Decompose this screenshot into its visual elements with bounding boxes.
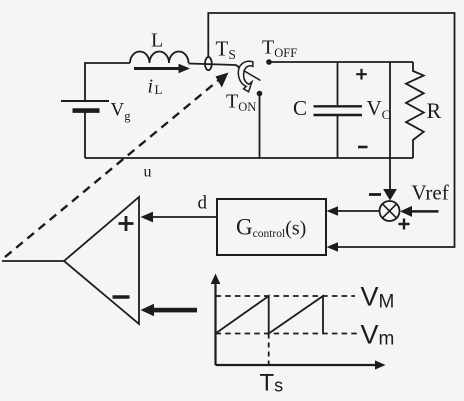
arrowhead Vref into junction (400, 206, 412, 217)
wire inductor to Ts node (189, 64, 237, 66)
junction minus sign (369, 193, 381, 196)
waveform y axis arrowhead (211, 274, 221, 285)
comparator plus input sign (119, 216, 134, 231)
wire Ton branch down (259, 96, 261, 158)
wire Toff rail (269, 61, 413, 63)
waveform y axis (214, 280, 216, 365)
wire summing junction to block (336, 210, 379, 212)
arrowhead Vc into junction (383, 189, 397, 201)
wire left branch lower (84, 112, 86, 158)
svg-text:R: R (427, 98, 442, 123)
wire outer top loop from switch node around right side into controller (208, 13, 454, 247)
junction plus sign (399, 219, 410, 230)
svg-text:VM: VM (361, 282, 395, 313)
resistor R (406, 62, 424, 158)
comparator output wire (2, 260, 64, 262)
waveform x axis (216, 364, 379, 366)
arrowhead into comparator + input (141, 212, 154, 223)
cap plus polarity (356, 69, 367, 80)
bottom rail (85, 157, 413, 159)
svg-text:C: C (293, 96, 307, 120)
capacitor C branch lower (337, 116, 339, 158)
inductor L (130, 52, 189, 64)
Ton contact dot (257, 91, 263, 97)
sawtooth ramps (216, 296, 324, 334)
Toff contact dot (266, 59, 272, 65)
svg-text:VC: VC (367, 96, 391, 122)
arrowhead into block right bottom (327, 242, 339, 252)
waveform Ts dashed vertical (268, 334, 270, 365)
Gcontrol block (217, 199, 326, 255)
svg-text:Ts: Ts (260, 370, 284, 397)
capacitor C plates (314, 105, 363, 107)
switch blade line (244, 71, 261, 81)
svg-text:Vm: Vm (361, 320, 395, 350)
svg-text:d: d (198, 193, 208, 214)
Vref arrow shaft (408, 210, 439, 213)
svg-text:TOFF: TOFF (262, 37, 297, 61)
arrowhead into block right top (327, 206, 339, 216)
waveform Vm dashed level (216, 333, 358, 335)
thick arrow into comparator - input (141, 304, 155, 316)
svg-text:L: L (151, 30, 163, 52)
svg-text:Vref: Vref (412, 181, 449, 205)
iL current arrow (134, 67, 179, 70)
wire Ts node to switch pivot (236, 65, 243, 70)
cap minus polarity (358, 146, 368, 149)
battery Vg (61, 101, 109, 111)
capacitor C branch upper (337, 62, 339, 105)
svg-text:TS: TS (216, 37, 236, 63)
svg-text:Vg: Vg (111, 100, 132, 124)
svg-text:TON: TON (226, 91, 256, 115)
summing junction circle (380, 201, 400, 221)
svg-text:i: i (148, 76, 154, 98)
dashed line arrowhead (216, 73, 229, 88)
svg-text:Gcontrol(s): Gcontrol(s) (236, 215, 306, 241)
svg-text:L: L (155, 82, 163, 97)
wire block output to comparator (150, 216, 217, 218)
waveform x axis arrowhead (375, 360, 386, 369)
switch curl symbol (238, 61, 253, 92)
Ts node ellipse (205, 57, 212, 70)
svg-text:u: u (144, 164, 152, 181)
op-amp comparator triangle (64, 197, 139, 324)
comparator minus input sign (113, 295, 130, 299)
wire left branch upper (source top) (85, 63, 130, 100)
Vc sense wire down (389, 62, 391, 190)
waveform VM dashed level (216, 295, 356, 297)
dashed control line to switch (5, 79, 220, 257)
